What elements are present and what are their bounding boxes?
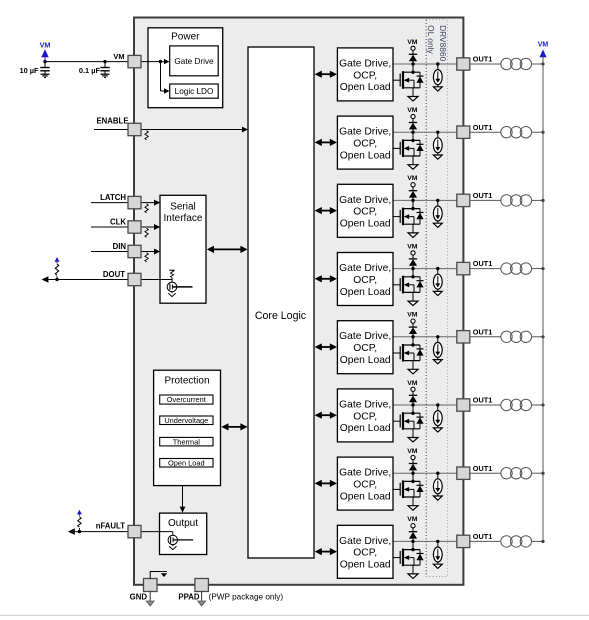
svg-text:(PWP package only): (PWP package only) — [209, 593, 284, 602]
svg-text:ENABLE: ENABLE — [96, 117, 128, 126]
svg-text:Thermal: Thermal — [173, 437, 200, 446]
svg-text:10 µF: 10 µF — [19, 66, 39, 75]
svg-text:VM: VM — [40, 40, 51, 49]
svg-text:PPAD: PPAD — [178, 593, 199, 602]
svg-text:GND: GND — [130, 593, 148, 602]
svg-text:Output: Output — [168, 518, 198, 529]
svg-text:CLK: CLK — [110, 217, 126, 226]
svg-text:0.1 µF: 0.1 µF — [79, 66, 101, 75]
svg-text:Logic LDO: Logic LDO — [175, 87, 214, 96]
svg-text:VM: VM — [538, 42, 549, 49]
svg-text:Core Logic: Core Logic — [255, 310, 307, 322]
svg-text:nFAULT: nFAULT — [96, 522, 126, 531]
svg-text:Open Load: Open Load — [168, 458, 205, 467]
svg-text:Interface: Interface — [164, 213, 203, 224]
svg-text:Undervoltage: Undervoltage — [164, 416, 208, 425]
svg-text:DRV8860: DRV8860 — [438, 25, 448, 62]
svg-text:DOUT: DOUT — [103, 270, 125, 279]
svg-text:Power: Power — [171, 32, 200, 43]
svg-text:Overcurrent: Overcurrent — [167, 395, 206, 404]
svg-text:VM: VM — [113, 52, 124, 61]
svg-text:OL only: OL only — [426, 25, 436, 54]
svg-text:DIN: DIN — [113, 242, 127, 251]
svg-text:Serial: Serial — [170, 201, 196, 212]
svg-text:Protection: Protection — [164, 375, 209, 386]
svg-text:Gate Drive: Gate Drive — [174, 57, 214, 66]
svg-text:LATCH: LATCH — [100, 193, 126, 202]
